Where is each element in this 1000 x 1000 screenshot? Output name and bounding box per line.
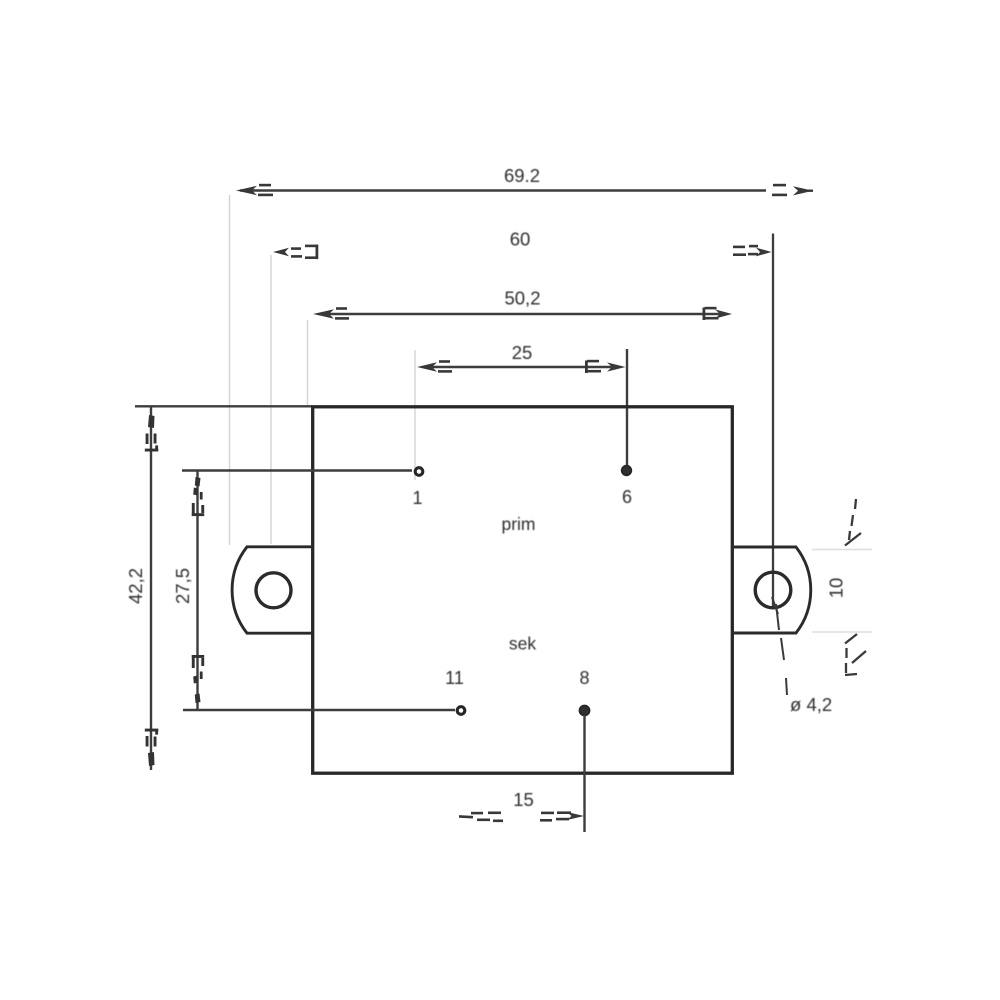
- extension line pin 6: [626, 349, 628, 466]
- faint extension line body left edge: [307, 320, 309, 406]
- dim 10 lower dashed arrow: [845, 634, 866, 675]
- pin 6: [622, 466, 632, 476]
- dimension line 25: [423, 366, 612, 368]
- arrow top of 42,2: [145, 415, 159, 452]
- svg-text:ø 4,2: ø 4,2: [790, 694, 832, 715]
- arrow bottom of 42,2: [145, 729, 159, 766]
- svg-text:prim: prim: [501, 514, 535, 534]
- svg-text:69.2: 69.2: [504, 165, 540, 186]
- dim 42,2 vertical line: [150, 407, 152, 770]
- dim 60 left arrow marks: [273, 245, 318, 260]
- arrow top of 27,5: [192, 477, 204, 516]
- leader line hole diameter dashed: [772, 597, 787, 695]
- left mounting hole: [256, 573, 291, 608]
- svg-text:42,2: 42,2: [125, 568, 146, 604]
- svg-text:6: 6: [622, 487, 632, 507]
- pin 1: [415, 468, 423, 476]
- dim 27,5 vertical line: [196, 471, 198, 709]
- faint extension line pin 1: [414, 350, 416, 480]
- svg-text:15: 15: [513, 789, 534, 810]
- pin 8 extension line: [583, 715, 585, 832]
- faint extension line tab top for dim 10: [812, 549, 872, 551]
- svg-text:50,2: 50,2: [504, 288, 540, 309]
- pin 8: [580, 706, 590, 716]
- faint extension line left tab edge: [229, 195, 231, 545]
- right mounting hole: [755, 572, 791, 608]
- svg-text:1: 1: [412, 488, 422, 508]
- arrow left of dim 50.2: [313, 307, 349, 320]
- dim 15 dashes left: [459, 812, 503, 823]
- svg-text:sek: sek: [509, 634, 536, 654]
- arrow right of dim 25: [585, 360, 626, 373]
- body outline: [313, 407, 733, 773]
- extension line right hole center / dim 60: [772, 234, 774, 609]
- svg-text:27,5: 27,5: [172, 568, 193, 604]
- right mounting tab: [731, 547, 811, 633]
- arrow left of dim 69.2: [236, 184, 273, 196]
- pin 11: [457, 707, 465, 715]
- arrow bottom of 27,5: [192, 655, 204, 703]
- arrow left of dim 25: [417, 360, 452, 373]
- pin 1 row line: [182, 469, 412, 471]
- dimension line 69.2: [240, 189, 766, 191]
- dim 60 right arrow marks: [733, 245, 772, 257]
- extension tick top for 42,2: [135, 405, 312, 407]
- left mounting tab: [232, 547, 313, 633]
- faint extension line tab bottom for dim 10: [812, 631, 872, 633]
- pin 11 row line: [183, 709, 455, 711]
- dim 15 dashes right and arrow: [540, 811, 584, 821]
- svg-text:25: 25: [512, 342, 533, 363]
- arrow right of dim 50.2: [703, 307, 733, 320]
- svg-text:60: 60: [510, 229, 531, 250]
- faint extension line left hole center: [270, 255, 272, 544]
- dimension line 50.2: [320, 313, 722, 315]
- dim 10 upper dashed arrow: [845, 499, 861, 546]
- arrow right of dim 69.2: [772, 184, 813, 196]
- svg-text:11: 11: [445, 668, 464, 688]
- svg-text:10: 10: [826, 578, 847, 599]
- svg-text:8: 8: [579, 668, 589, 688]
